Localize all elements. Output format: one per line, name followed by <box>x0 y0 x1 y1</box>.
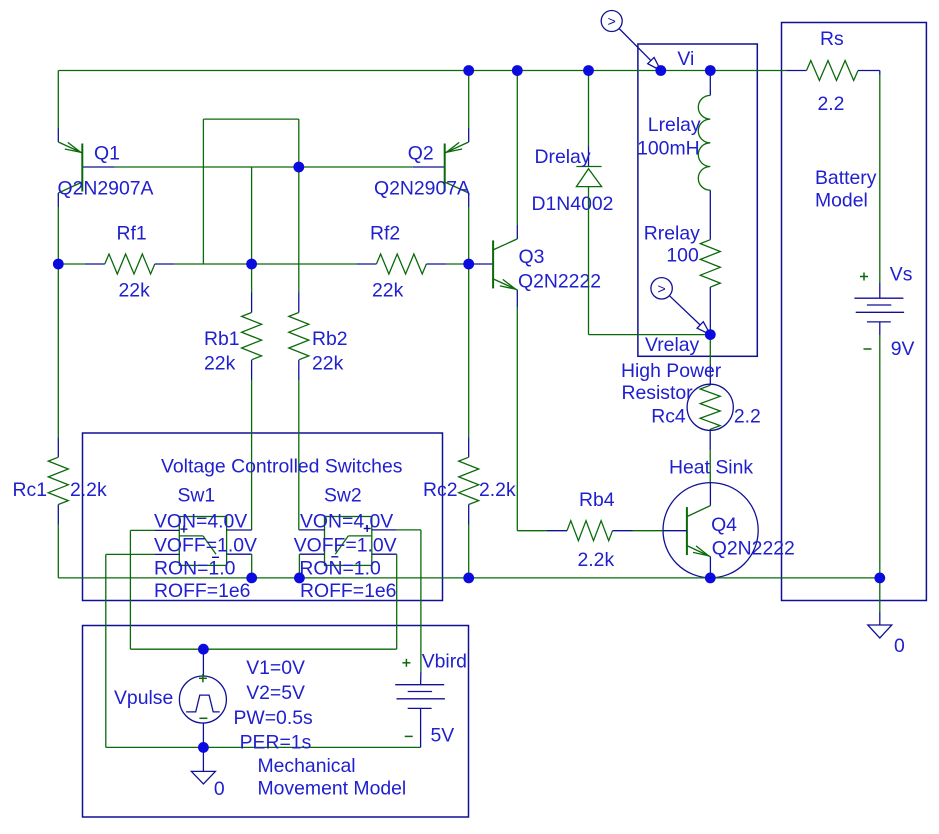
voltage controlled switches box <box>83 433 443 601</box>
battery model box <box>782 23 927 601</box>
label Rrelay value <box>666 245 699 267</box>
svg-text:Heat Sink: Heat Sink <box>669 456 753 478</box>
transistor Q3 emitter <box>493 279 517 290</box>
svg-text:22k: 22k <box>119 279 151 301</box>
svg-text:VOFF=1.0V: VOFF=1.0V <box>294 535 397 557</box>
svg-text:Voltage Controlled Switches: Voltage Controlled Switches <box>161 456 402 478</box>
resistor Rrelay <box>700 240 720 287</box>
wire Sw2 pin right top <box>372 529 421 531</box>
label Q2 value <box>374 177 470 199</box>
svg-text:2.2: 2.2 <box>734 405 761 427</box>
diode Drelay <box>576 167 601 187</box>
svg-text:Lrelay: Lrelay <box>648 114 701 136</box>
svg-text:Q2N2222: Q2N2222 <box>712 537 795 559</box>
label Sw2 VOFF <box>294 535 397 557</box>
wire Drelay to Vrelay <box>589 187 711 335</box>
mechanical movement model box <box>83 626 469 818</box>
svg-text:2.2k: 2.2k <box>479 479 516 501</box>
transistor Q1 emitter <box>58 142 82 153</box>
label Rb2 <box>312 328 348 350</box>
transistor Q4 collector <box>687 506 711 517</box>
svg-text:100mH: 100mH <box>637 138 700 160</box>
wire Rb1 bottom to Sw1 <box>251 360 253 530</box>
transistor Q4 base lead <box>663 530 687 532</box>
label V2 <box>246 682 305 704</box>
wire Rb2 bottom to Sw2 <box>298 360 301 530</box>
resistor Rb2 <box>289 313 309 360</box>
svg-text:2.2k: 2.2k <box>578 549 615 571</box>
transistor Q1 bar <box>81 144 83 192</box>
wire Rc2 top <box>468 264 470 457</box>
svg-text:9V: 9V <box>891 338 915 360</box>
svg-text:Q2: Q2 <box>408 142 434 164</box>
wire Vpulse bottom node <box>106 746 421 748</box>
svg-text:Sw2: Sw2 <box>324 484 362 506</box>
wire top rail <box>58 70 786 72</box>
label Vrelay <box>645 334 700 356</box>
label Drelay <box>535 146 591 168</box>
label Q1 <box>94 142 120 164</box>
wire Q3 emitter down <box>517 290 547 531</box>
battery Vs minus <box>864 348 872 350</box>
svg-text:Vi: Vi <box>677 48 694 70</box>
label Vbird <box>422 651 467 673</box>
switch Sw2 blade <box>335 536 372 554</box>
battery Vs plus <box>860 273 868 281</box>
svg-text:Q3: Q3 <box>519 246 545 268</box>
label Vs <box>890 264 913 286</box>
label Sw1 VOFF <box>154 535 257 557</box>
wire bottom bus <box>58 577 880 579</box>
label Battery Model <box>815 167 877 212</box>
label Sw1 <box>178 484 216 506</box>
label Sw1 ROFF <box>154 580 250 602</box>
label Rf2 value <box>372 279 404 301</box>
label PER <box>240 731 312 753</box>
wire H2 loop <box>203 118 298 120</box>
svg-text:>: > <box>608 13 616 29</box>
label Rc4 <box>651 405 686 427</box>
svg-text:Sw1: Sw1 <box>178 484 216 506</box>
heat sink circle Q4 <box>663 483 758 578</box>
svg-text:D1N4002: D1N4002 <box>532 193 614 215</box>
label Vbird value <box>431 725 455 747</box>
label High Power <box>621 360 722 404</box>
transistor Q3 bar <box>492 240 494 288</box>
wire Vpulse bottom lead <box>202 723 204 747</box>
transistor Q2 emitter <box>445 142 469 153</box>
label Rb4 value <box>578 549 615 571</box>
svg-text:PW=0.5s: PW=0.5s <box>234 707 313 729</box>
label Q4 value <box>712 537 795 559</box>
svg-text:Resistor: Resistor <box>622 382 694 404</box>
label Drelay value <box>532 193 614 215</box>
svg-text:22k: 22k <box>372 279 404 301</box>
wire Rf1 to Rf2 <box>155 263 377 265</box>
svg-text:100: 100 <box>666 245 699 267</box>
wire Rb4 leads <box>547 530 663 532</box>
wire Sw1 pin right top <box>227 529 252 531</box>
svg-text:0: 0 <box>214 778 225 800</box>
svg-text:Vs: Vs <box>890 264 913 286</box>
resistor Rc4 <box>700 385 720 429</box>
label Vpulse <box>114 687 173 709</box>
wire Sw1 ctrl+ drop <box>129 530 131 649</box>
svg-text:Q2N2907A: Q2N2907A <box>58 177 154 199</box>
label Rb1 value <box>204 352 236 374</box>
wire V6 riser to base row <box>298 119 300 292</box>
transistor Q2 emitter arrow <box>447 142 463 152</box>
label Rs <box>820 28 844 50</box>
wire Lrelay to Rrelay <box>709 190 711 240</box>
wire Sw1 pin left top <box>130 529 179 531</box>
svg-text:0: 0 <box>894 635 905 657</box>
source Vpulse minus <box>199 717 207 719</box>
svg-text:VON=4.0V: VON=4.0V <box>154 511 247 533</box>
resistor Rc1 <box>48 457 68 504</box>
label Rf1 <box>117 222 147 244</box>
label Rc1 value <box>70 479 107 501</box>
wire Sw2 to Vbird <box>420 530 422 685</box>
resistor Rs <box>807 61 859 81</box>
svg-text:Rf2: Rf2 <box>370 222 400 244</box>
switch Sw1 minus <box>212 556 219 558</box>
label Sw1 VON <box>154 511 247 533</box>
wire Sw2 pin left top <box>299 529 324 531</box>
wire Q1 collector lead <box>57 193 59 264</box>
battery Vbird <box>395 685 445 709</box>
label Rf1 value <box>119 279 151 301</box>
probe Vi <box>601 11 661 71</box>
battery Vbird minus <box>405 735 413 737</box>
svg-text:Rs: Rs <box>820 28 844 50</box>
svg-text:VOFF=1.0V: VOFF=1.0V <box>154 535 257 557</box>
wire Rf2 to Q3 base <box>426 263 493 265</box>
wire Q2 emitter lead <box>468 71 470 143</box>
svg-text:Rc1: Rc1 <box>13 479 47 501</box>
label Rs value <box>818 93 845 115</box>
svg-text:5V: 5V <box>431 725 455 747</box>
svg-text:Vrelay: Vrelay <box>645 334 700 356</box>
label Q3 value <box>518 271 601 293</box>
wire Sw1 pin right bottom <box>227 554 252 578</box>
label Rrelay <box>644 223 700 245</box>
svg-text:2.2k: 2.2k <box>70 479 107 501</box>
svg-text:Rb1: Rb1 <box>204 328 240 350</box>
resistor Rc2 <box>459 457 479 504</box>
label Q3 <box>519 246 545 268</box>
label ground 0 right <box>894 635 905 657</box>
resistor Rb1 <box>242 313 262 360</box>
svg-text:RON=1.0: RON=1.0 <box>299 558 381 580</box>
wire Vrelay to Rc4 <box>709 335 711 386</box>
svg-text:Q2N2907A: Q2N2907A <box>374 177 470 199</box>
label Rc2 value <box>479 479 516 501</box>
switch Sw2 body <box>325 517 372 566</box>
label Sw2 ROFF <box>300 580 396 602</box>
svg-text:Model: Model <box>815 189 868 211</box>
switch Sw1 blade <box>179 536 216 554</box>
svg-text:Rf1: Rf1 <box>117 222 147 244</box>
ground Vpulse <box>191 771 215 784</box>
switch Sw2 minus <box>331 556 338 558</box>
label V1 <box>246 657 305 679</box>
label Sw1 RON <box>154 558 236 580</box>
transistor Q2 collector <box>445 182 469 193</box>
ground battery <box>868 625 892 638</box>
wire Rc1 top <box>57 264 59 457</box>
wire Q2 collector lead <box>468 193 470 264</box>
svg-text:VON=4.0V: VON=4.0V <box>300 511 393 533</box>
source Vpulse waveform <box>186 695 220 712</box>
svg-text:Q4: Q4 <box>711 514 737 536</box>
transistor Q3 emitter arrow <box>500 279 516 289</box>
label Q4 <box>711 514 737 536</box>
svg-text:Rc4: Rc4 <box>651 405 686 427</box>
svg-text:Rb4: Rb4 <box>579 489 615 511</box>
svg-text:>: > <box>658 280 666 296</box>
probe Vrelay <box>651 278 710 335</box>
label VCS title <box>161 456 402 478</box>
label Mechanical Movement Model <box>258 755 407 800</box>
wire rail to Rs <box>787 70 807 72</box>
svg-text:Vbird: Vbird <box>422 651 467 673</box>
transistor Q2 bar <box>444 144 446 192</box>
svg-text:Movement Model: Movement Model <box>258 777 407 799</box>
label Rb1 <box>204 328 240 350</box>
wire Sw1 ctrl- drop <box>105 554 107 747</box>
label PW <box>234 707 313 729</box>
label Q1 value <box>58 177 154 199</box>
battery Vs <box>854 298 904 322</box>
transistor Q4 emitter <box>687 546 711 557</box>
battery Vbird plus <box>402 659 410 667</box>
wire Rc1 bottom <box>57 505 59 578</box>
svg-text:22k: 22k <box>204 352 236 374</box>
transistor Q1 emitter arrow <box>65 142 81 152</box>
resistor Rf2 <box>376 254 426 274</box>
wire Rb2 lead top <box>298 293 300 313</box>
label Rb4 <box>579 489 615 511</box>
resistor Rb4 <box>567 521 613 541</box>
label Sw2 RON <box>299 558 381 580</box>
wire Sw1 pin left bottom <box>106 553 180 555</box>
resistor Rc4 circle <box>687 384 733 430</box>
label Rc2 <box>423 479 457 501</box>
transistor Q4 bar <box>686 507 688 555</box>
svg-text:High Power: High Power <box>621 360 722 382</box>
svg-text:Rc2: Rc2 <box>423 479 457 501</box>
wire Vpulse top node <box>130 648 396 650</box>
svg-text:V1=0V: V1=0V <box>246 657 305 679</box>
svg-text:Mechanical: Mechanical <box>258 755 356 777</box>
wire rail to Lrelay <box>709 71 711 96</box>
wire node A to Rf1 <box>58 263 105 265</box>
label Lrelay <box>648 114 701 136</box>
inductor Lrelay <box>698 95 710 190</box>
label Rc1 <box>13 479 47 501</box>
wire Vs to bus <box>879 322 881 578</box>
wire rail left drop to Q1 emitter <box>57 71 59 143</box>
label Rc4 value <box>734 405 761 427</box>
svg-text:Rb2: Rb2 <box>312 328 348 350</box>
wire Vpulse to ground <box>202 747 204 771</box>
label Lrelay value <box>637 138 700 160</box>
label Vi <box>677 48 694 70</box>
wire Rc4 to Q4 <box>709 429 711 505</box>
wire Sw2 pin right bottom <box>372 554 397 649</box>
wire Rrelay to Vrelay <box>709 287 711 335</box>
transistor Q1 collector <box>58 182 82 193</box>
svg-text:V2=5V: V2=5V <box>246 682 305 704</box>
wire Q3 collector to rail <box>516 71 518 239</box>
switch Sw1 plus <box>180 526 187 533</box>
svg-text:PER=1s: PER=1s <box>240 731 312 753</box>
wire Q4 emitter to bus <box>709 557 711 578</box>
source Vpulse <box>179 676 226 723</box>
wire V4 Rf1-right riser <box>202 119 204 264</box>
svg-text:22k: 22k <box>312 352 344 374</box>
wire bus to ground <box>879 578 881 625</box>
label Q2 <box>408 142 434 164</box>
wire Vpulse top lead <box>202 649 204 676</box>
label Sw2 VON <box>300 511 393 533</box>
label Heat Sink <box>669 456 753 478</box>
wire base row Q1-Q2 <box>82 166 444 168</box>
svg-text:RON=1.0: RON=1.0 <box>154 558 236 580</box>
source Vpulse plus <box>199 674 207 682</box>
svg-text:2.2: 2.2 <box>818 93 845 115</box>
label Sw2 <box>324 484 362 506</box>
svg-text:ROFF=1e6: ROFF=1e6 <box>300 580 396 602</box>
transistor Q3 collector <box>493 239 517 250</box>
wire Rc2 bottom <box>468 505 470 578</box>
svg-text:Q1: Q1 <box>94 142 120 164</box>
svg-text:Battery: Battery <box>815 167 877 189</box>
switch Sw2 plus <box>364 525 371 532</box>
svg-text:Vpulse: Vpulse <box>114 687 173 709</box>
resistor Rf1 <box>105 254 155 274</box>
svg-text:ROFF=1e6: ROFF=1e6 <box>154 580 250 602</box>
label Vs value <box>891 338 915 360</box>
transistor Q4 emitter arrow <box>693 546 709 556</box>
label Rf2 <box>370 222 400 244</box>
wire Rb1 top <box>251 167 253 313</box>
wire Sw2 pin left bottom <box>299 554 324 578</box>
relay model box <box>638 44 757 356</box>
svg-text:Drelay: Drelay <box>535 146 591 168</box>
label Rb2 value <box>312 352 344 374</box>
wire rail to Drelay <box>588 71 590 167</box>
wire Rs to Vs <box>858 71 880 299</box>
svg-text:Rrelay: Rrelay <box>644 223 700 245</box>
wire Vbird bottom lead <box>420 708 422 747</box>
label ground 0 left <box>214 778 225 800</box>
switch Sw1 body <box>179 517 226 566</box>
